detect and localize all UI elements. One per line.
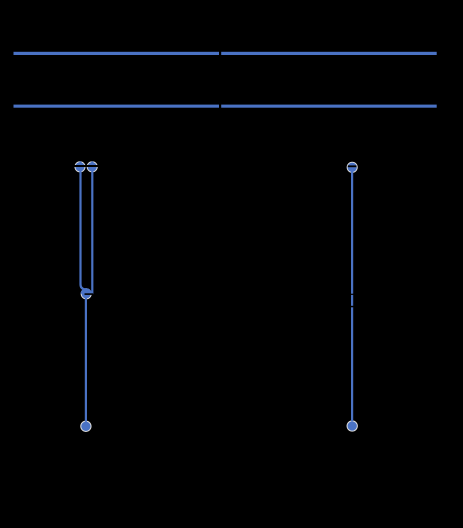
top header rule 1 (14, 52, 437, 55)
main stem wire below merge node (85, 294, 87, 422)
black column divider crossing both rules (219, 46, 221, 112)
merge commit dot (81, 289, 91, 299)
second branch wire (straight, ends at merge row) (91, 162, 93, 293)
black label slot across right commit dot (348, 165, 357, 167)
top header rule 2 (14, 105, 437, 108)
black label slot across left commit dots (73, 165, 100, 167)
commit dot top-left B (87, 162, 97, 172)
commit dot top-left A (75, 162, 85, 172)
right branch wire (351, 167, 353, 421)
merge dot top-half fill (covers ring where wires join) (81, 288, 92, 294)
black tick crossing right wire (lower) (349, 306, 355, 308)
commit dot top-right (347, 162, 357, 172)
bottom node right (347, 421, 357, 431)
black tick crossing right wire (upper) (350, 294, 355, 295)
black label slot on merge dot (85, 293, 94, 295)
left branch wire (curves into merge node) (81, 162, 87, 289)
bottom node left (81, 421, 91, 431)
